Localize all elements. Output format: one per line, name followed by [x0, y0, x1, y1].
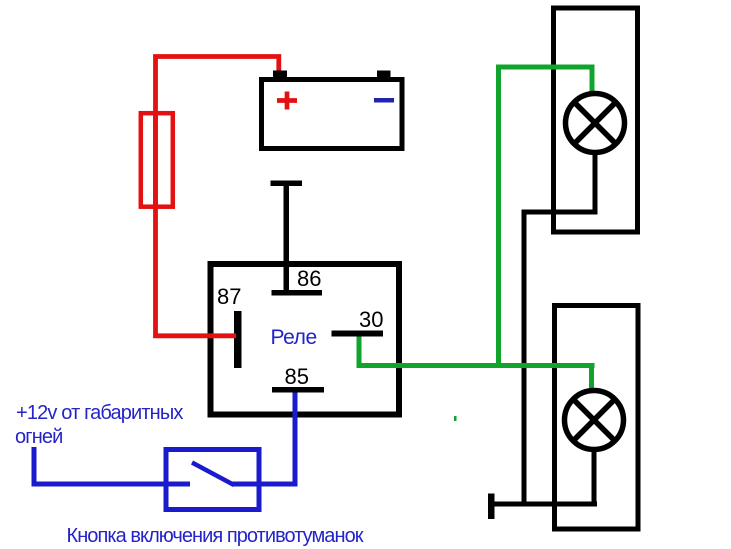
svg-text:86: 86: [297, 266, 321, 291]
battery plus sign: [277, 92, 297, 110]
switch lever: [192, 463, 234, 486]
wire: upper lamp return (black): [524, 152, 595, 504]
wire: green into lower lamp: [589, 366, 594, 392]
fuse FU1: [141, 113, 173, 207]
svg-text:Кнопка включения противотумано: Кнопка включения противотуманок: [67, 525, 364, 547]
ground terminal bar: [488, 494, 495, 520]
svg-text:87: 87: [217, 284, 241, 309]
wire: blue +12v feed down: [34, 447, 190, 484]
pin 85 bar: [272, 387, 324, 393]
battery minus sign: [374, 98, 394, 103]
wire: red from fuse to battery +: [156, 57, 279, 210]
battery terminal + post: [273, 71, 287, 78]
relay K1 box: [211, 264, 400, 415]
battery terminal - post: [377, 71, 391, 78]
wire: blue switch to relay pin 85: [233, 393, 296, 485]
svg-text:Реле: Реле: [271, 326, 317, 349]
lamp EL2 lower (circle with X): [565, 391, 624, 450]
stray green tick: [454, 416, 457, 421]
svg-text:огней: огней: [15, 426, 63, 448]
svg-text:+12v от габаритных: +12v от габаритных: [16, 402, 183, 424]
terminal T-bar above relay: [271, 181, 303, 187]
switch SB1 box: [166, 450, 259, 510]
lamp housing box lower: [555, 306, 639, 530]
svg-text:85: 85: [285, 364, 309, 389]
wire: ground bus bottom (black): [491, 502, 597, 507]
wire: green pin 30 to lamps (horizontal bus): [359, 337, 595, 366]
battery GB1 box: [262, 80, 403, 149]
wire: lower lamp return (black): [592, 449, 597, 504]
wire: green branch up to upper lamp: [499, 67, 593, 366]
lamp housing box upper: [554, 8, 638, 232]
wire: T-bar to pin 86 (black): [284, 186, 290, 295]
lamp EL1 upper (circle with X): [566, 94, 625, 153]
pin 86 bar: [272, 290, 323, 296]
svg-text:30: 30: [359, 307, 383, 332]
pin 87 bar: [234, 311, 242, 368]
wire: red fuse internal + down to relay pin 87: [156, 111, 237, 336]
pin 30 bar: [332, 331, 384, 337]
